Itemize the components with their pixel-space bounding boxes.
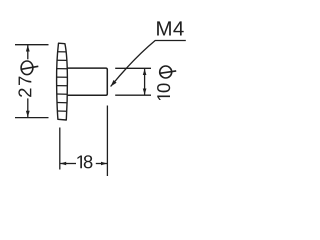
dimension 10phi : dimension line [144,69,146,95]
dimension 27phi : arrowheads [26,45,30,52]
dimension 27phi : dimension line (broken for text) [27,45,29,59]
dimension 18 : dimension line segments [60,163,76,165]
dimension 27phi : phi symbol (drawn) [21,61,38,75]
dimension 27phi : extension lines [15,44,49,46]
dimension 10phi : label digits 10 (rotated) [157,83,170,100]
dimension 27phi : label digits 27 (rotated) [18,77,31,97]
M4 label text [157,21,184,35]
dimension 10phi : extension lines [115,67,151,69]
dimension 10phi : phi symbol (drawn) [160,66,177,78]
knurl hatch rungs [57,52,68,111]
M4 leader line [111,41,186,87]
dimension 10phi : arrowheads [143,69,147,75]
dimension 18 : arrowheads [60,162,66,165]
M4 leader arrowhead [111,80,117,87]
dimension 18 : label text [77,155,92,168]
knurled head (side view) [57,43,68,120]
shaft (cylinder body) [67,68,108,95]
dimension 18 : extension lines [59,128,61,170]
